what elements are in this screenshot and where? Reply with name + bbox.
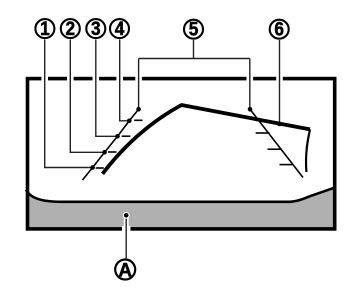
leader casings (white gaps in border) — [45, 75, 280, 235]
right tick 1 — [256, 132, 270, 134]
leader line 1 — [45, 40, 93, 168]
right tick 2 — [268, 148, 282, 150]
leader line A — [125, 215, 127, 258]
callout circle 3 — [86, 19, 105, 38]
bumper top edge line — [26, 187, 336, 202]
callout circle A — [115, 260, 135, 280]
left thin diagonal distance line — [83, 109, 139, 180]
right tick 3 — [280, 164, 294, 166]
svg-text:A: A — [118, 260, 132, 281]
bumper area A (gray) — [26, 187, 336, 229]
svg-text:2: 2 — [66, 19, 76, 40]
right thin diagonal distance line — [250, 109, 303, 177]
leader line 3 — [96, 40, 118, 137]
dot 5 right — [248, 107, 253, 112]
callout circle 1 — [35, 19, 54, 38]
callout circle 6 — [270, 20, 289, 39]
left distance dash 3 — [122, 135, 131, 137]
callout circle 5 — [184, 20, 203, 39]
dot 3 — [115, 134, 120, 139]
left distance dash 1 — [96, 167, 104, 169]
svg-text:3: 3 — [91, 19, 101, 40]
screen border — [28, 79, 335, 229]
leader bracket 5 — [139, 40, 250, 109]
right hook curve — [306, 129, 310, 172]
dot 5 left — [136, 107, 141, 112]
leader line 2 — [70, 40, 104, 153]
svg-text:5: 5 — [189, 20, 199, 41]
left distance dash 4 — [134, 119, 142, 121]
svg-text:6: 6 — [274, 20, 284, 41]
dot 1 — [90, 165, 95, 170]
dot 6 — [277, 122, 282, 127]
left distance dash 2 — [108, 151, 117, 153]
dot A — [123, 212, 130, 219]
dot 4 — [127, 119, 132, 124]
svg-text:1: 1 — [40, 19, 50, 40]
vehicle-width guide line (thick: left curve + right line) — [103, 105, 311, 174]
leader line 4 — [120, 40, 130, 121]
leader line 6 — [279, 40, 281, 124]
callout circle 2 — [61, 19, 80, 38]
dot 2 — [102, 150, 107, 155]
callout circle 4 — [110, 19, 129, 38]
svg-text:4: 4 — [115, 19, 125, 40]
